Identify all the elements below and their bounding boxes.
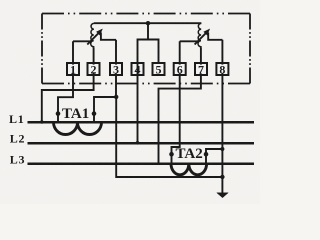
line L2: [28, 142, 255, 145]
node TA2 left polarity dot: [169, 152, 174, 157]
wire TA1 right terminal to common junction: [94, 97, 116, 122]
terminal 2: [88, 63, 100, 75]
wire terminal6 to arrow tail: [180, 40, 198, 42]
transformer TA1 secondary humps: [54, 122, 102, 134]
wire T-bar to terminals 4 and 5: [138, 40, 159, 64]
wire terminal1 to arrow tail: [73, 40, 90, 42]
wire terminal8 riser to ground: [221, 40, 223, 193]
wire arrow head to terminal3 riser: [101, 33, 116, 40]
node TA1 left polarity dot: [56, 111, 61, 116]
wire terminal4 to L2 tap: [137, 64, 139, 143]
transformer TA2 secondary humps: [171, 164, 207, 175]
terminal 7: [195, 63, 207, 75]
wire top common (voltage bus): [94, 22, 201, 24]
wire arrow head to terminal8 riser: [208, 33, 222, 40]
wire terminal3 riser: [115, 40, 117, 97]
node TA2 right polarity dot: [204, 152, 209, 157]
node TA1 right polarity dot: [92, 111, 97, 116]
terminal 6: [174, 63, 186, 75]
wire terminal7 riser from coil to L3 tap: [159, 47, 201, 164]
wire stem from bus dot to T-bar: [147, 23, 149, 39]
node earth wire junction lower: [220, 175, 224, 179]
current coil arrow element 2: [195, 32, 207, 44]
wire common earth return: [116, 97, 222, 177]
paper noise overlay: [0, 0, 1, 1]
wire terminal2 riser from coil to L1 tap: [42, 47, 94, 121]
node L1 tap junction: [40, 120, 44, 124]
node voltage-bus junction dot: [146, 21, 150, 25]
node common junction dot: [114, 95, 118, 99]
current coil arrow element 1: [87, 32, 99, 44]
node earth wire junction upper: [220, 147, 224, 151]
coil W1 voltage coil element 1: [91, 23, 94, 47]
terminal 1: [67, 63, 79, 75]
wire terminal1 riser: [58, 41, 73, 122]
terminal 5: [153, 63, 165, 75]
terminal 4: [132, 63, 144, 75]
wire TA2 right terminal to earth wire: [206, 149, 222, 164]
coil W2 voltage coil element 2: [198, 23, 201, 47]
terminal 3: [110, 63, 122, 75]
wire terminal6 riser: [172, 41, 180, 164]
terminal 8: [216, 63, 228, 75]
meter enclosure dash-dot border: [42, 14, 250, 84]
ground arrow: [217, 193, 228, 198]
line L3: [28, 163, 255, 166]
line L1: [28, 121, 255, 124]
node L2 tap junction: [136, 141, 140, 145]
